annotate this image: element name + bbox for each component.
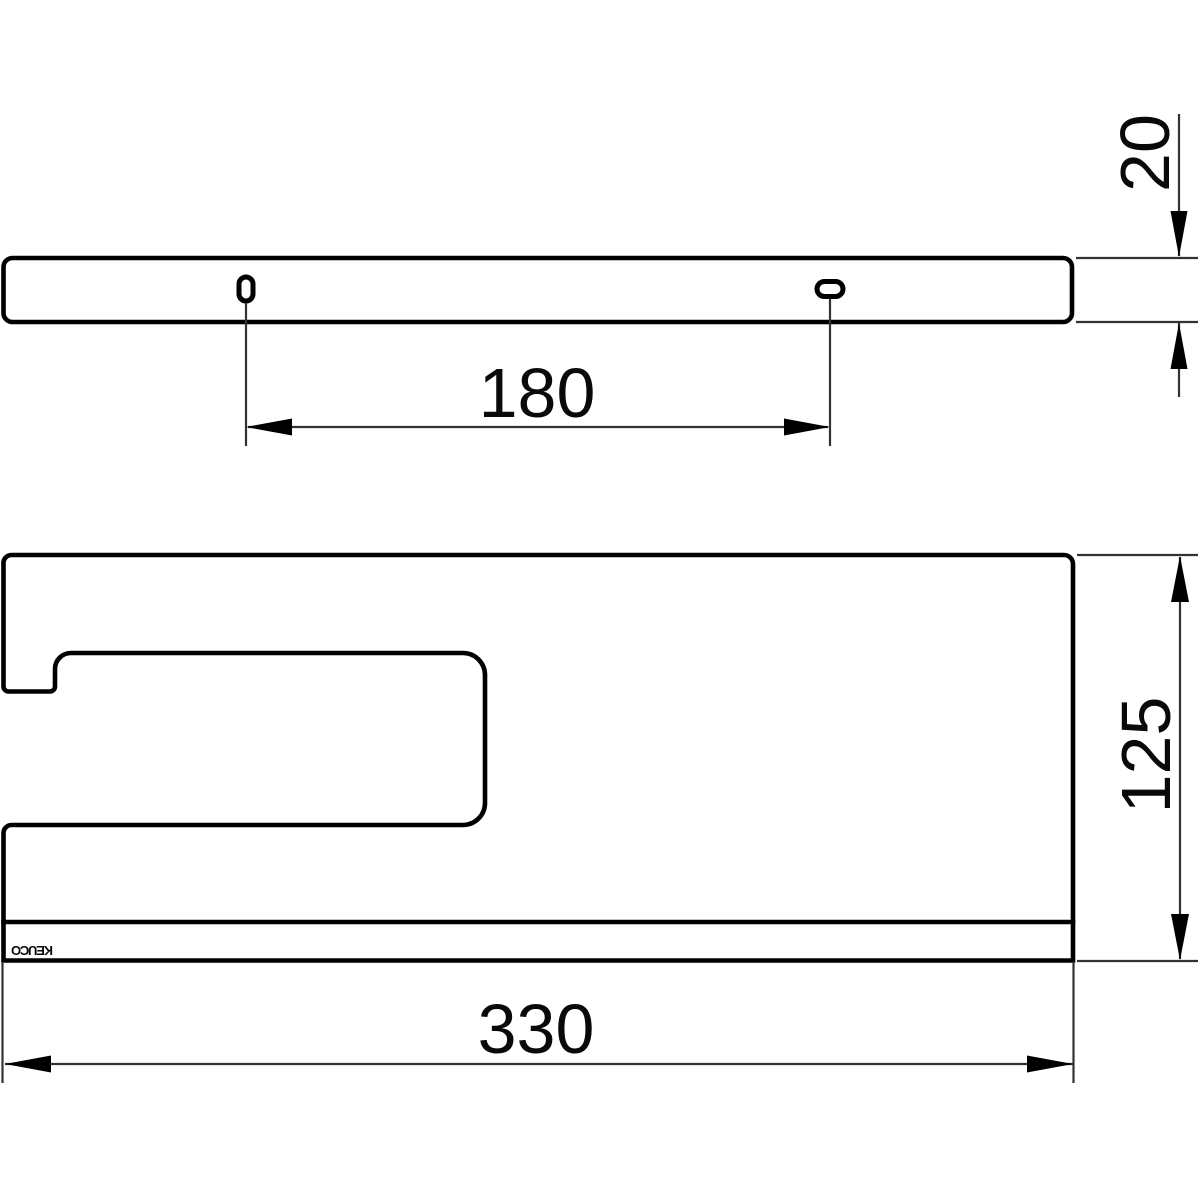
- extension line from left slot: [245, 303, 247, 446]
- side view bar outline: [4, 258, 1073, 322]
- svg-text:180: 180: [479, 354, 596, 432]
- arrow left 180: [246, 419, 292, 436]
- arrow right 180: [784, 419, 830, 436]
- svg-text:KEUCO: KEUCO: [11, 943, 53, 958]
- extension line top edge for 20: [1076, 257, 1198, 259]
- mounting slot left (vertical): [239, 277, 253, 301]
- svg-text:330: 330: [478, 990, 595, 1068]
- extension line right for 330: [1072, 963, 1074, 1083]
- dimension line 180: [248, 426, 828, 428]
- arrow left 330: [5, 1056, 51, 1073]
- arrow right 330: [1027, 1056, 1073, 1073]
- bottom view plate outline with roll cutout: [3, 555, 1073, 922]
- front strip below plate: [4, 920, 1074, 961]
- extension line from right slot: [829, 299, 831, 446]
- svg-text:20: 20: [1106, 114, 1184, 192]
- extension line left for 330: [1, 963, 3, 1083]
- extension line bottom edge for 20: [1076, 321, 1198, 323]
- mounting slot right (horizontal): [817, 282, 843, 297]
- arrow down 125: [1171, 914, 1189, 960]
- dimension line 125: [1179, 557, 1181, 959]
- arrow up 125: [1171, 556, 1189, 602]
- arrow down 20: [1171, 211, 1188, 257]
- dimension line 20 lower: [1178, 323, 1180, 397]
- dimension line 330: [5, 1063, 1073, 1065]
- svg-text:125: 125: [1107, 697, 1185, 814]
- arrow up 20: [1171, 323, 1188, 369]
- extension line top edge for 125: [1077, 554, 1198, 556]
- dimension line 20 upper: [1178, 114, 1180, 256]
- extension line strip bottom for 125: [1077, 960, 1198, 962]
